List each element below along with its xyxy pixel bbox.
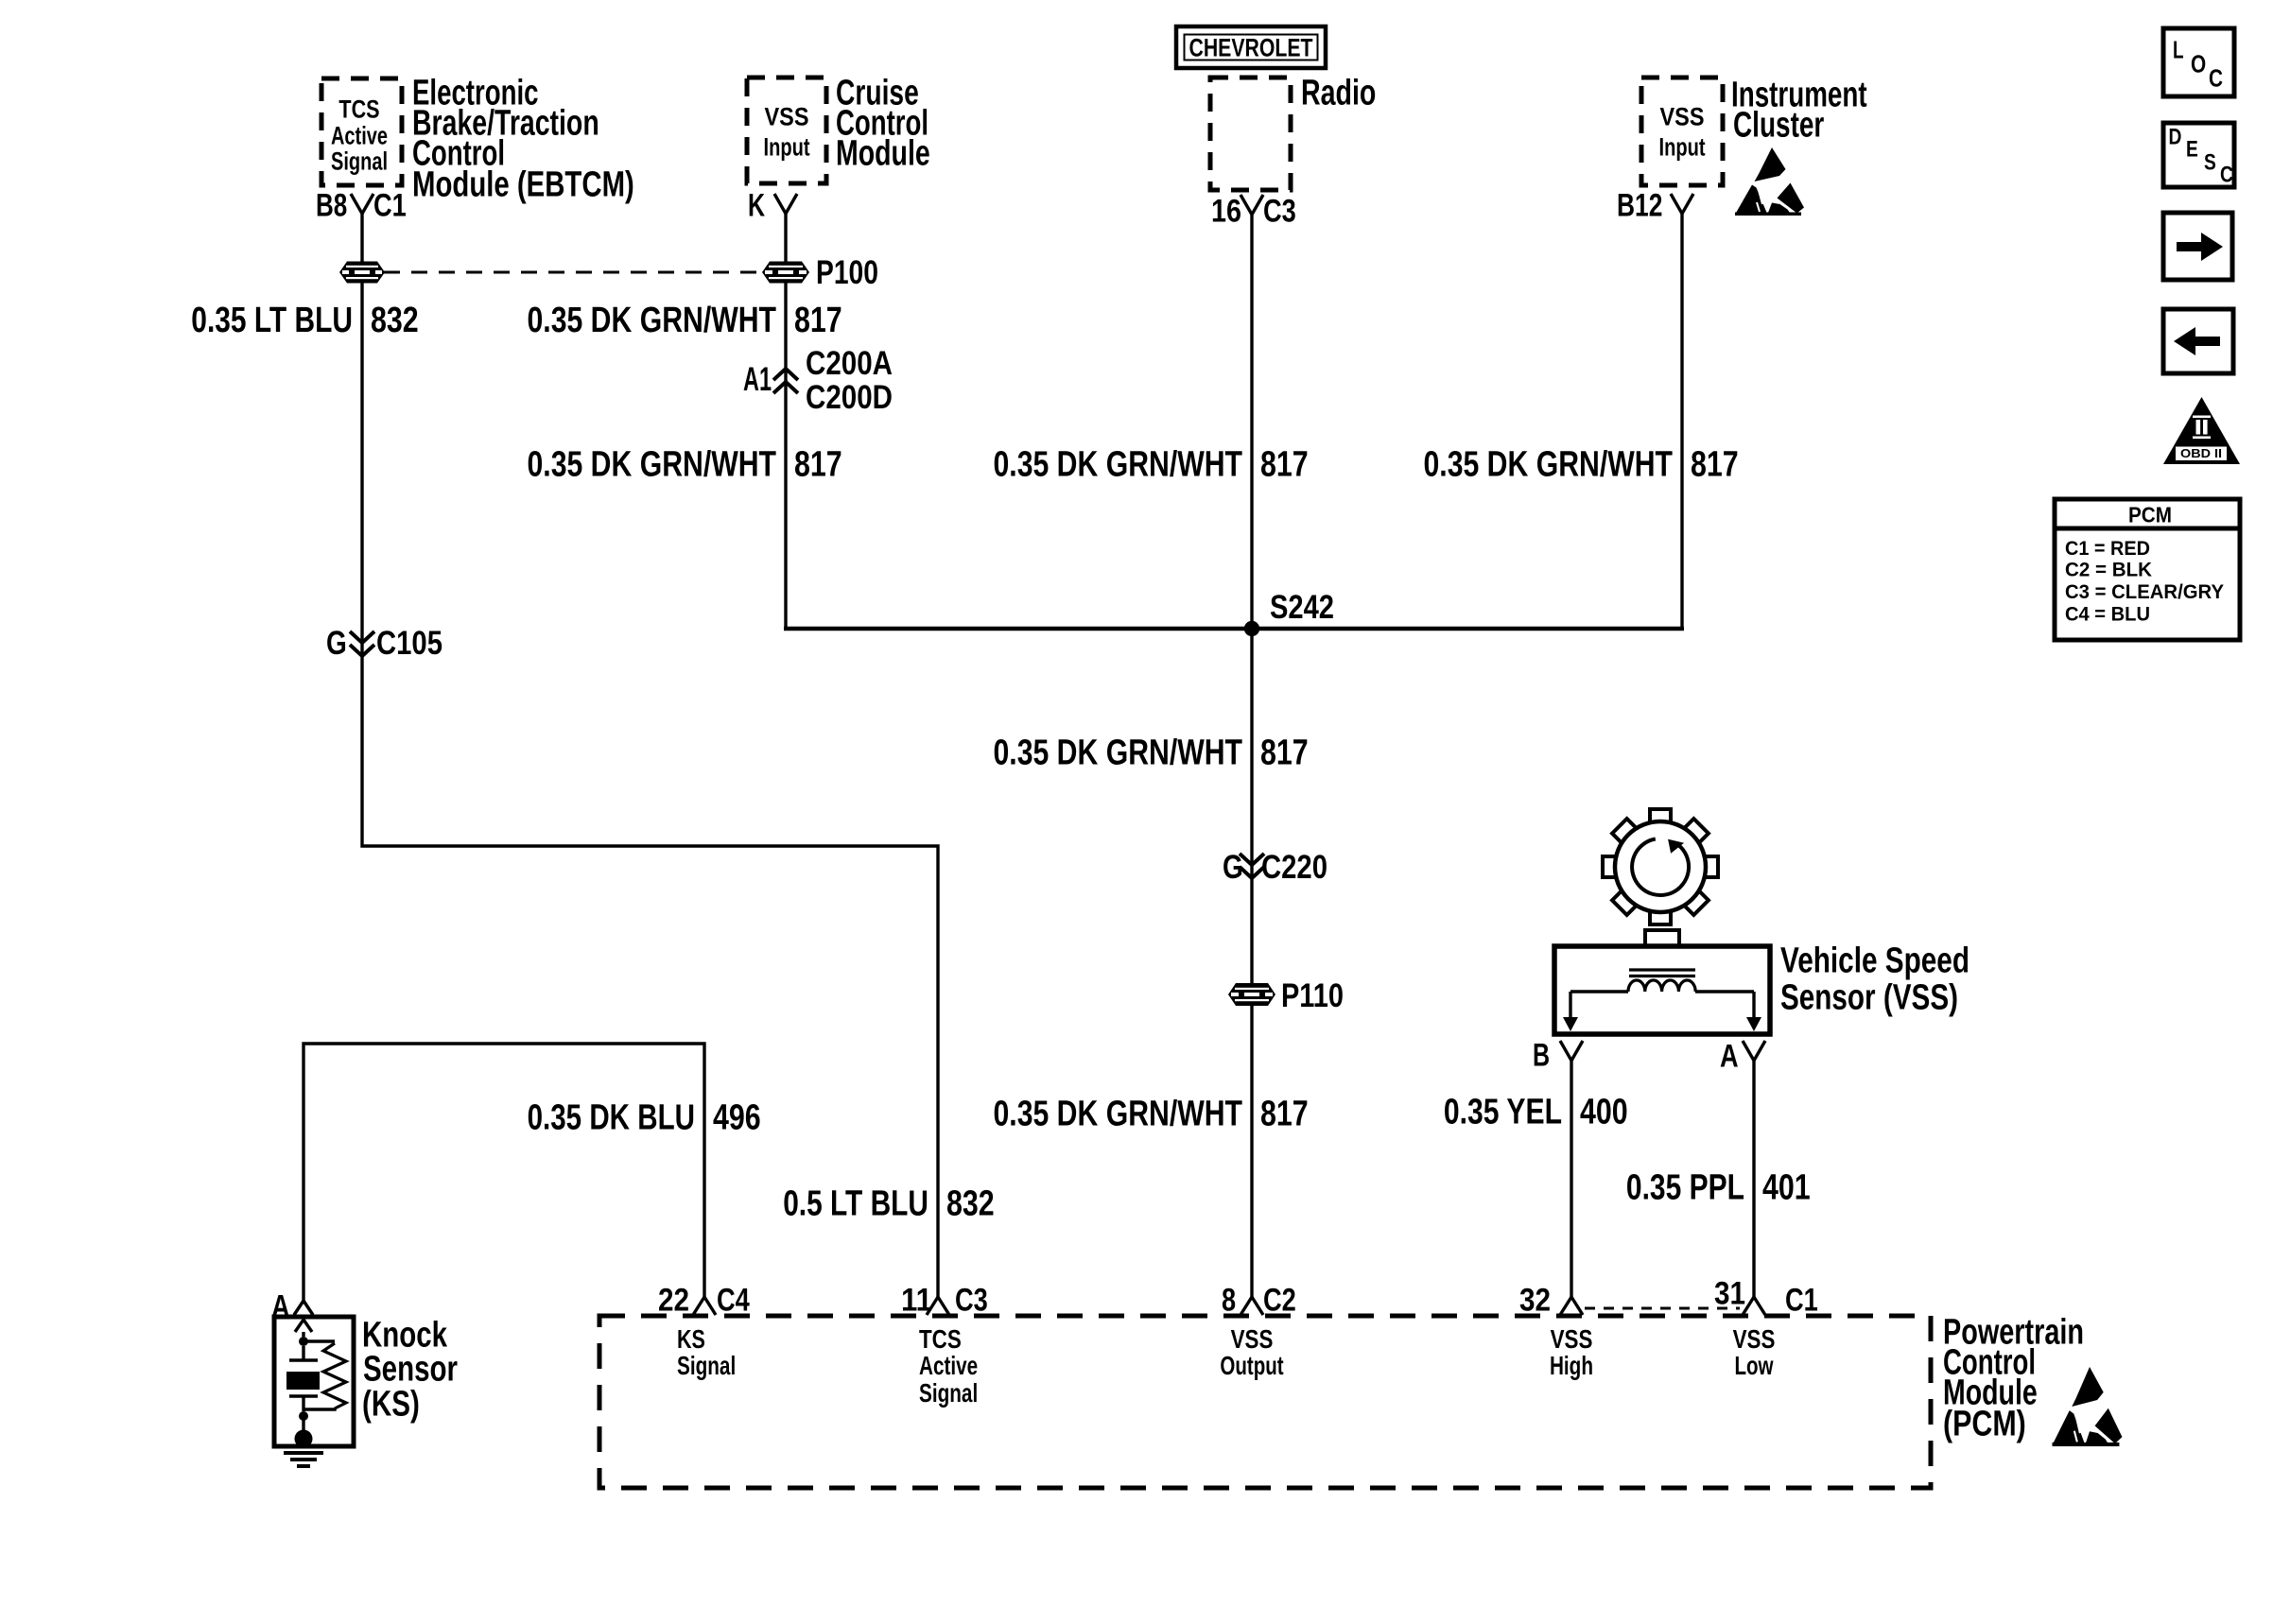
svg-text:C2: C2 bbox=[1263, 1283, 1296, 1319]
svg-text:0.35 YEL: 0.35 YEL bbox=[1444, 1092, 1562, 1132]
svg-text:0.35 DK GRN/WHT: 0.35 DK GRN/WHT bbox=[994, 733, 1243, 772]
svg-text:832: 832 bbox=[946, 1183, 995, 1223]
svg-text:C2 = BLK: C2 = BLK bbox=[2065, 560, 2152, 581]
svg-text:P100: P100 bbox=[816, 254, 878, 291]
svg-text:C3: C3 bbox=[955, 1283, 988, 1319]
svg-text:VSS: VSS bbox=[1733, 1324, 1776, 1354]
svg-text:C: C bbox=[2220, 162, 2233, 187]
svg-text:Input: Input bbox=[1659, 132, 1706, 161]
svg-text:Module (EBTCM): Module (EBTCM) bbox=[412, 164, 634, 204]
svg-text:817: 817 bbox=[1260, 1094, 1309, 1133]
svg-text:C4: C4 bbox=[717, 1283, 750, 1319]
svg-text:0.35 DK BLU: 0.35 DK BLU bbox=[528, 1097, 695, 1137]
svg-text:8: 8 bbox=[1222, 1283, 1236, 1319]
svg-text:E: E bbox=[2186, 136, 2198, 162]
svg-text:TCS: TCS bbox=[919, 1324, 962, 1354]
svg-text:L: L bbox=[2173, 36, 2184, 64]
svg-text:Cluster: Cluster bbox=[1733, 105, 1824, 145]
svg-text:KS: KS bbox=[677, 1324, 705, 1354]
svg-text:Signal: Signal bbox=[331, 147, 388, 175]
svg-text:Radio: Radio bbox=[1301, 73, 1376, 112]
svg-text:Sensor: Sensor bbox=[363, 1349, 458, 1389]
svg-text:B: B bbox=[1533, 1038, 1550, 1074]
svg-text:CHEVROLET: CHEVROLET bbox=[1189, 33, 1313, 61]
svg-text:Output: Output bbox=[1220, 1351, 1283, 1380]
svg-text:Vehicle Speed: Vehicle Speed bbox=[1780, 941, 1969, 980]
svg-text:B12: B12 bbox=[1617, 188, 1662, 224]
svg-text:C200A: C200A bbox=[806, 345, 893, 382]
svg-text:C: C bbox=[2209, 64, 2223, 93]
svg-text:832: 832 bbox=[371, 301, 419, 340]
svg-text:VSS: VSS bbox=[1551, 1324, 1593, 1354]
svg-text:22: 22 bbox=[658, 1283, 689, 1319]
svg-text:S242: S242 bbox=[1270, 589, 1334, 626]
svg-text:O: O bbox=[2191, 50, 2206, 78]
svg-text:32: 32 bbox=[1519, 1283, 1551, 1319]
svg-text:Sensor (VSS): Sensor (VSS) bbox=[1780, 977, 1958, 1017]
svg-text:0.35 PPL: 0.35 PPL bbox=[1626, 1167, 1744, 1207]
svg-text:C3 = CLEAR/GRY: C3 = CLEAR/GRY bbox=[2065, 581, 2224, 603]
svg-text:C3: C3 bbox=[1263, 194, 1296, 230]
svg-text:11: 11 bbox=[901, 1283, 932, 1319]
svg-text:401: 401 bbox=[1762, 1167, 1811, 1207]
svg-text:A: A bbox=[271, 1289, 290, 1325]
svg-text:(PCM): (PCM) bbox=[1943, 1404, 2026, 1443]
svg-text:C1: C1 bbox=[373, 188, 407, 224]
svg-text:Signal: Signal bbox=[677, 1351, 736, 1380]
svg-text:16: 16 bbox=[1211, 194, 1241, 230]
svg-text:OBD II: OBD II bbox=[2180, 446, 2222, 460]
svg-text:VSS: VSS bbox=[765, 102, 809, 130]
svg-text:High: High bbox=[1550, 1351, 1593, 1380]
svg-text:0.35 DK GRN/WHT: 0.35 DK GRN/WHT bbox=[994, 1094, 1243, 1133]
svg-text:(KS): (KS) bbox=[362, 1384, 420, 1424]
svg-text:C220: C220 bbox=[1261, 849, 1327, 886]
svg-text:A1: A1 bbox=[743, 361, 772, 398]
svg-text:0.35 DK GRN/WHT: 0.35 DK GRN/WHT bbox=[1424, 444, 1674, 484]
svg-text:0.35 DK GRN/WHT: 0.35 DK GRN/WHT bbox=[528, 444, 777, 484]
svg-text:817: 817 bbox=[1260, 444, 1309, 484]
svg-text:C4 = BLU: C4 = BLU bbox=[2065, 604, 2150, 626]
svg-text:Low: Low bbox=[1734, 1351, 1773, 1380]
svg-text:Module: Module bbox=[836, 133, 930, 173]
svg-text:Active: Active bbox=[331, 121, 388, 149]
svg-text:31: 31 bbox=[1714, 1276, 1745, 1312]
svg-text:C200D: C200D bbox=[806, 379, 893, 416]
svg-text:817: 817 bbox=[794, 444, 842, 484]
svg-text:VSS: VSS bbox=[1660, 102, 1705, 130]
svg-text:S: S bbox=[2204, 149, 2216, 175]
svg-text:400: 400 bbox=[1580, 1092, 1628, 1132]
svg-text:D: D bbox=[2169, 124, 2182, 149]
svg-text:P110: P110 bbox=[1281, 977, 1344, 1014]
svg-text:K: K bbox=[748, 188, 765, 224]
svg-text:PCM: PCM bbox=[2128, 503, 2172, 527]
svg-text:B8: B8 bbox=[316, 188, 347, 224]
svg-text:A: A bbox=[1720, 1039, 1739, 1075]
svg-text:VSS: VSS bbox=[1231, 1324, 1274, 1354]
svg-text:C1 = RED: C1 = RED bbox=[2065, 538, 2150, 560]
svg-text:496: 496 bbox=[713, 1097, 761, 1137]
svg-text:Input: Input bbox=[764, 132, 810, 161]
svg-text:0.5 LT BLU: 0.5 LT BLU bbox=[783, 1183, 928, 1223]
svg-text:Active: Active bbox=[919, 1351, 978, 1380]
svg-text:C105: C105 bbox=[376, 625, 442, 662]
svg-text:817: 817 bbox=[1260, 733, 1309, 772]
svg-text:817: 817 bbox=[794, 301, 842, 340]
svg-text:0.35 DK GRN/WHT: 0.35 DK GRN/WHT bbox=[528, 301, 777, 340]
svg-text:C1: C1 bbox=[1785, 1283, 1818, 1319]
svg-text:0.35 LT BLU: 0.35 LT BLU bbox=[191, 301, 353, 340]
svg-text:TCS: TCS bbox=[338, 95, 379, 123]
svg-text:Signal: Signal bbox=[919, 1378, 978, 1408]
svg-text:0.35 DK GRN/WHT: 0.35 DK GRN/WHT bbox=[994, 444, 1243, 484]
svg-text:G: G bbox=[1223, 849, 1243, 886]
svg-text:G: G bbox=[326, 625, 347, 662]
svg-text:817: 817 bbox=[1691, 444, 1739, 484]
